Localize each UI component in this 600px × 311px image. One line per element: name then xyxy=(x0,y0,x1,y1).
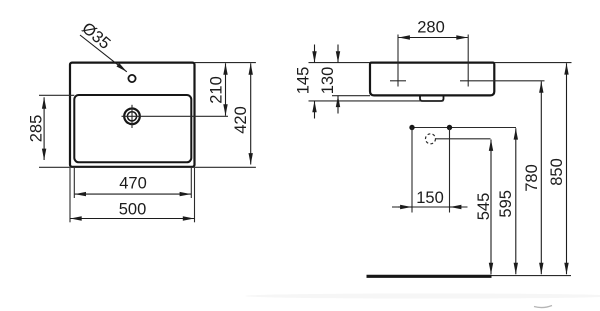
svg-text:280: 280 xyxy=(417,19,445,37)
extension line 470 left xyxy=(73,168,75,198)
extension line 145 bottom xyxy=(309,100,444,102)
mounting hole dash right with extension to 780 xyxy=(460,80,545,82)
washbasin top view inner basin xyxy=(74,95,191,162)
dimension 130 top arrow xyxy=(337,45,339,63)
svg-text:780: 780 xyxy=(523,164,541,192)
drain horizontal centerline xyxy=(122,115,229,117)
dimension 210 line xyxy=(225,63,227,115)
extension line top right xyxy=(195,62,256,64)
dimension 420 line xyxy=(250,63,252,164)
floor line thick xyxy=(367,275,492,278)
faucet hole xyxy=(128,75,135,82)
extension line 500 right xyxy=(194,168,196,222)
mounting hole dash left xyxy=(390,80,406,82)
dimension 780 line xyxy=(540,81,542,274)
drain inner circle xyxy=(127,112,136,121)
dashed outlet circle xyxy=(426,134,436,144)
svg-text:285: 285 xyxy=(28,115,46,143)
washbasin top view outer outline xyxy=(70,63,195,167)
extension line side top left xyxy=(309,62,371,64)
extension line from right dot down xyxy=(449,128,451,213)
washbasin side view body xyxy=(370,63,494,96)
extension line from left dot down xyxy=(411,128,413,213)
dimension 280 line xyxy=(399,37,468,39)
tap level line xyxy=(410,127,517,129)
extension line 500 left xyxy=(69,168,71,222)
extension line 280 left xyxy=(397,35,399,87)
drain vertical centerline xyxy=(131,105,133,128)
faint watermark arc xyxy=(534,306,552,308)
svg-text:470: 470 xyxy=(119,175,147,193)
extension line inner top left xyxy=(39,94,74,96)
svg-text:850: 850 xyxy=(548,158,566,186)
dimension 850 line xyxy=(566,63,568,274)
svg-text:420: 420 xyxy=(232,106,250,134)
extension line bottom long xyxy=(39,166,256,168)
svg-text:210: 210 xyxy=(208,76,226,104)
drain outer circle xyxy=(124,109,140,125)
tap level dot left xyxy=(409,125,414,130)
dimension 145 top arrow xyxy=(314,45,316,63)
dimension 130 bottom arrow xyxy=(337,96,339,114)
side view drain trap xyxy=(420,95,444,101)
faint watermark band xyxy=(245,293,600,298)
tap level dot right xyxy=(447,125,452,130)
extension line 130 bottom xyxy=(332,95,370,97)
dimension 595 line xyxy=(515,128,517,274)
dimension 500 line xyxy=(70,218,194,220)
dimension 545 line xyxy=(490,140,492,275)
dimension 470 line xyxy=(75,193,191,195)
svg-text:130: 130 xyxy=(319,67,337,95)
svg-text:595: 595 xyxy=(497,190,515,218)
svg-text:545: 545 xyxy=(475,193,493,221)
extension line 280 right xyxy=(467,35,469,87)
leader line to faucet hole xyxy=(80,35,127,72)
floor line thin xyxy=(492,275,572,277)
extension line 470 right xyxy=(190,168,192,198)
dimension 150 right arrow xyxy=(450,206,462,208)
dimension 150 left arrow xyxy=(398,206,412,208)
extension line side top right xyxy=(494,62,571,64)
dimension 145 bottom arrow xyxy=(314,101,316,119)
dimension 285 line xyxy=(43,97,45,160)
svg-text:145: 145 xyxy=(295,67,313,95)
outlet level line xyxy=(436,138,491,140)
svg-text:500: 500 xyxy=(119,200,147,218)
dimension 150 line xyxy=(392,206,468,208)
svg-text:150: 150 xyxy=(416,189,444,207)
